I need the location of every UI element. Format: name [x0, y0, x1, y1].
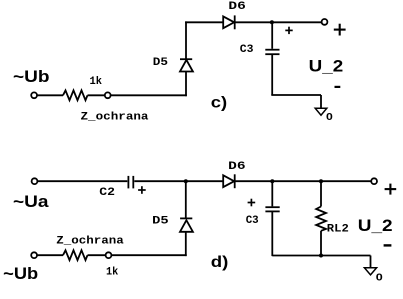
output - sign (top): [335, 86, 341, 88]
svg-text:d): d): [211, 254, 229, 271]
polarity + near C3 (top): [285, 27, 292, 34]
wire D5 cathode to top rail (top): [185, 21, 187, 60]
svg-text:Z_ochrana: Z_ochrana: [81, 112, 149, 124]
svg-text:1k: 1k: [90, 76, 103, 88]
resistor 1k Z_ochrana (bottom): [63, 250, 88, 260]
svg-text:C3: C3: [240, 44, 254, 56]
output terminal circle (bottom): [371, 178, 377, 184]
resistor 1k Z_ochrana (top): [63, 90, 88, 100]
wire RL2 branch vertical lower (bottom): [320, 231, 322, 256]
polarity + near C3 (bottom): [248, 199, 256, 207]
wire RL2 branch vertical upper (bottom): [320, 181, 322, 206]
svg-text:1k: 1k: [106, 267, 119, 279]
wire terminal to resistor (top): [37, 94, 63, 96]
terminal circle ~Ua: [32, 178, 38, 184]
junction dot C3 tap (bottom): [270, 179, 274, 183]
capacitor C3 (top): [265, 49, 279, 51]
svg-text:D5: D5: [153, 57, 169, 69]
wire ground stub (top): [320, 95, 322, 108]
wire ground stub (bottom): [370, 256, 372, 268]
output + sign (bottom): [385, 184, 397, 195]
wire C2 to D6 (bottom rail left): [134, 180, 223, 182]
wire junction to C3 (top): [271, 22, 273, 49]
wire resistor to right terminal (top): [88, 94, 106, 96]
svg-text:~Ub: ~Ub: [3, 264, 38, 283]
svg-text:~Ua: ~Ua: [13, 192, 49, 211]
terminal circle right of R (bottom): [106, 252, 112, 258]
wire C3 branch vertical upper (bottom): [271, 181, 273, 206]
terminal circle left of R (bottom): [31, 252, 37, 258]
capacitor C2: [127, 176, 129, 189]
output - sign (bottom): [384, 244, 392, 246]
capacitor C3 (bottom): [265, 206, 279, 208]
wire ~Ua to C2: [37, 180, 127, 182]
resistor RL2 (bottom): [316, 207, 326, 231]
diode D5 (bottom): [180, 217, 192, 219]
output terminal circle (top): [322, 19, 328, 25]
wire left terminal to resistor (bottom): [37, 254, 63, 256]
junction dot D5 tap (bottom): [184, 179, 188, 183]
svg-text:Z_ochrana: Z_ochrana: [56, 236, 124, 248]
output + sign (top): [334, 24, 346, 36]
svg-text:RL2: RL2: [327, 224, 349, 236]
svg-text:D6: D6: [228, 161, 245, 173]
wire D5 anode down (bottom): [185, 232, 187, 256]
diode D6 (bottom): [223, 175, 234, 187]
svg-text:c): c): [211, 95, 227, 112]
wire top rail right segment (top): [235, 21, 322, 23]
svg-text:U_2: U_2: [358, 216, 393, 235]
svg-text:D5: D5: [152, 216, 169, 228]
svg-text:C2: C2: [99, 187, 115, 199]
svg-text:0: 0: [326, 111, 333, 123]
wire resistor to right terminal (bottom): [88, 254, 106, 256]
diode D6 (top): [223, 16, 234, 28]
wire D5 to Z_ochrana (bottom): [111, 254, 186, 256]
svg-text:D6: D6: [228, 1, 245, 13]
junction dot RL2 tap (bottom): [319, 179, 323, 183]
polarity + near C2: [138, 186, 146, 194]
wire top rail left segment (top): [185, 21, 223, 23]
wire resistor to D5 branch (top): [111, 94, 187, 96]
wire C3 to bottom corner (top): [271, 55, 273, 95]
wire junction to D5 (bottom): [185, 181, 187, 218]
svg-text:0: 0: [376, 272, 383, 284]
ground symbol (bottom): [364, 268, 376, 275]
wire bottom horizontal to ground (top): [271, 94, 321, 96]
svg-text:U_2: U_2: [309, 57, 344, 76]
junction dot bottom rail (bottom): [319, 254, 323, 258]
svg-text:~Ub: ~Ub: [13, 67, 50, 86]
wire D6 to output terminal (bottom top rail): [235, 180, 372, 182]
terminal circle left of R (top): [31, 92, 37, 98]
junction dot at C3 tap (top): [270, 20, 274, 24]
svg-text:C3: C3: [246, 215, 259, 227]
wire D5 anode vertical (top): [185, 72, 187, 97]
wire bottom rail (bottom): [272, 255, 370, 257]
diode D5 (top): [180, 60, 193, 72]
terminal circle right of R (top): [105, 92, 111, 98]
wire C3 branch vertical lower (bottom): [271, 212, 273, 256]
ground symbol (top): [315, 108, 327, 115]
